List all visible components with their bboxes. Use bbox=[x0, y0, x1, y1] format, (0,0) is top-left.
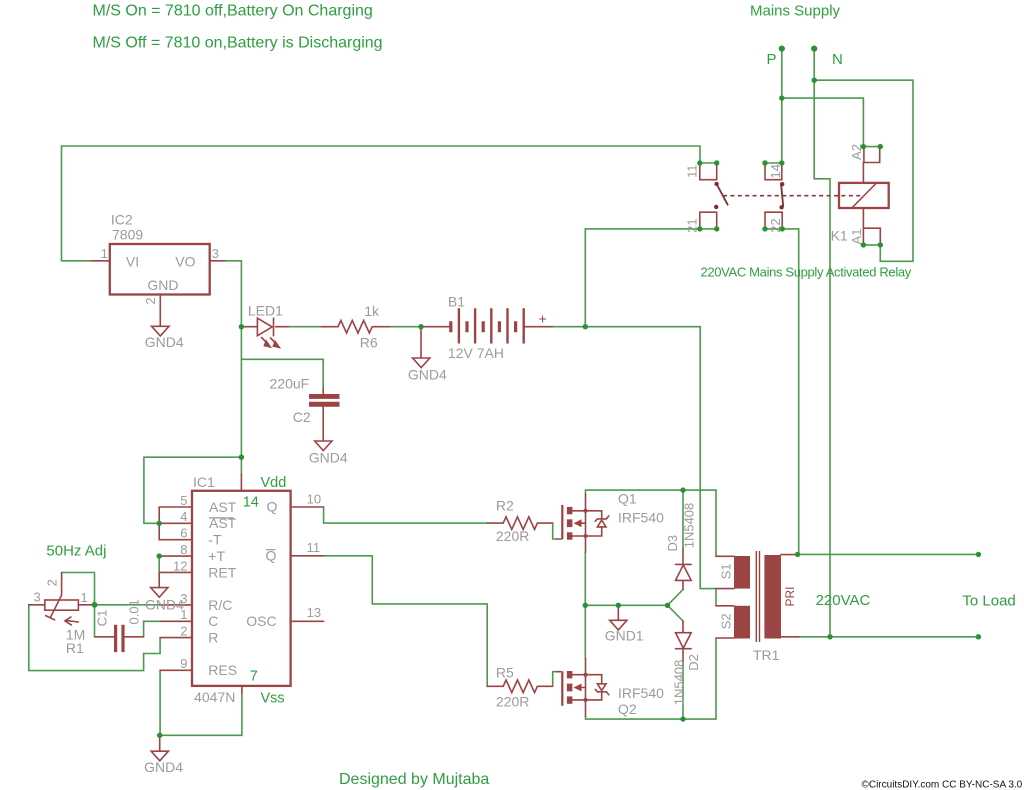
wire: 220VAC output bottom line bbox=[799, 636, 979, 638]
IC1 pin 3 R/C bbox=[160, 604, 192, 606]
svg-text:220VAC: 220VAC bbox=[816, 592, 871, 609]
svg-text:VI: VI bbox=[126, 254, 139, 270]
svg-text:B1: B1 bbox=[448, 293, 465, 309]
node contact 22 pins bbox=[762, 226, 767, 231]
node pins 4-5-6 bbox=[157, 521, 162, 526]
relay contact 11 bbox=[684, 163, 716, 180]
svg-text:-T: -T bbox=[208, 532, 222, 548]
wire: D2 anode diagonal bbox=[668, 605, 684, 621]
svg-text:R: R bbox=[208, 630, 218, 646]
wire: IC2 pin1 input bbox=[62, 260, 92, 262]
svg-text:14: 14 bbox=[243, 495, 259, 511]
svg-text:C2: C2 bbox=[293, 409, 311, 425]
node contact 11 pins bbox=[697, 160, 702, 165]
svg-text:GND4: GND4 bbox=[408, 367, 447, 383]
IC1 pin 10 Q bbox=[291, 506, 324, 508]
relay actuation dashed line bbox=[723, 195, 862, 197]
relay contact 22 bbox=[765, 212, 783, 233]
wire: Q2 drain to D2 node and S2 bottom bbox=[586, 638, 717, 719]
wire: N branch to relay coil A1 bbox=[814, 80, 913, 261]
svg-text:0.01: 0.01 bbox=[127, 599, 142, 624]
wire: R2 to Q1 gate bbox=[553, 523, 557, 539]
svg-text:4: 4 bbox=[180, 509, 187, 524]
svg-text:S1: S1 bbox=[718, 563, 733, 579]
wire: pot node to IC1 R/C bbox=[95, 604, 161, 606]
transformer TR1 bbox=[716, 551, 799, 663]
svg-text:2: 2 bbox=[180, 624, 187, 639]
diode D3 1N5408 bbox=[665, 503, 697, 590]
svg-text:R6: R6 bbox=[360, 335, 378, 351]
node battery plus bbox=[583, 324, 588, 329]
svg-text:RES: RES bbox=[208, 662, 237, 678]
node Q1 source GND1 bbox=[583, 603, 588, 608]
relay coil K1 bbox=[831, 163, 889, 244]
svg-text:GND4: GND4 bbox=[145, 597, 184, 613]
node battery minus bbox=[418, 324, 423, 329]
svg-text:LED1: LED1 bbox=[248, 303, 283, 319]
ground GND4 at IC1 pins 8-12 bbox=[145, 588, 184, 613]
svg-text:2: 2 bbox=[44, 579, 59, 586]
battery GND lead bbox=[420, 327, 422, 358]
wire: battery plus to relay contact 21 bbox=[585, 229, 700, 327]
wire: A2 pin pair bbox=[863, 146, 880, 148]
svg-text:9: 9 bbox=[180, 656, 187, 671]
wire: IC2 VO to LED node and IC1 Vdd bbox=[225, 261, 242, 475]
LED1 bbox=[243, 303, 288, 349]
svg-text:4047N: 4047N bbox=[194, 689, 235, 705]
svg-text:220R: 220R bbox=[496, 694, 529, 710]
svg-text:P: P bbox=[767, 51, 777, 68]
svg-text:Vss: Vss bbox=[261, 691, 285, 707]
svg-text:C1: C1 bbox=[94, 610, 109, 627]
node pot pin1 bbox=[92, 602, 98, 608]
IC1 pins 5-4-6 tie bbox=[158, 507, 160, 540]
IC1 pin 1 C bbox=[160, 620, 192, 622]
svg-text:IC2: IC2 bbox=[111, 212, 133, 228]
node D2 drain bbox=[680, 716, 685, 721]
diode D2 1N5408 bbox=[672, 621, 702, 705]
junction node dots bbox=[92, 46, 982, 739]
wire: 220VAC output top line bbox=[799, 553, 979, 555]
node P terminal bbox=[779, 46, 785, 52]
svg-text:AST: AST bbox=[209, 499, 237, 515]
node Vdd bbox=[239, 455, 244, 460]
ground GND4 bottom bbox=[144, 735, 183, 775]
wire: N terminal down bbox=[814, 49, 830, 637]
svg-text:Q: Q bbox=[267, 499, 278, 515]
wire: Vdd rail to pins 5 4 6 bbox=[144, 457, 242, 523]
svg-text:7: 7 bbox=[250, 668, 258, 684]
svg-text:220VAC Mains Supply Activated: 220VAC Mains Supply Activated Relay bbox=[701, 265, 912, 280]
svg-text:IRF540: IRF540 bbox=[618, 510, 664, 526]
IC1 pin 5 bbox=[159, 506, 192, 508]
IC1 4047N body bbox=[192, 491, 291, 686]
svg-text:S2: S2 bbox=[718, 613, 733, 629]
capacitor C2 bbox=[270, 375, 340, 441]
wire: P branch to relay coil A2 bbox=[782, 98, 864, 147]
ground GND4 at C2 bbox=[309, 441, 348, 466]
relay contact 14 bbox=[765, 163, 783, 180]
IC2 pin 2 GND lead bbox=[159, 295, 161, 327]
node diode common bbox=[665, 603, 670, 608]
node bottom GND4 bbox=[157, 733, 162, 738]
svg-text:OSC: OSC bbox=[246, 613, 276, 629]
wire: IC1 R pin to pot pin3 bbox=[29, 605, 160, 671]
node N terminal bbox=[811, 46, 817, 52]
node A1 pins bbox=[861, 242, 866, 247]
battery B1 bbox=[421, 293, 552, 361]
transistor Q1 IRF540 bbox=[557, 491, 665, 553]
wire: contact 11 pin pair bbox=[700, 162, 717, 164]
svg-text:K1: K1 bbox=[831, 228, 848, 244]
wire: contact 22 pin pair bbox=[765, 228, 782, 230]
svg-text:2: 2 bbox=[143, 297, 158, 304]
IC1 pins 8-12 GND lead bbox=[158, 572, 160, 587]
wire: R6 to battery B1 bbox=[389, 326, 421, 328]
svg-text:10: 10 bbox=[307, 492, 321, 507]
svg-text:Q1: Q1 bbox=[618, 491, 637, 507]
svg-text:IC1: IC1 bbox=[193, 474, 215, 490]
IC1 pin 13 OSC bbox=[291, 620, 324, 622]
svg-text:+T: +T bbox=[208, 548, 225, 564]
svg-text:14: 14 bbox=[768, 164, 783, 178]
node N branch bbox=[812, 78, 817, 83]
svg-text:TR1: TR1 bbox=[753, 647, 780, 663]
wire: pot node down to C1 bbox=[94, 605, 96, 637]
capacitor C1 bbox=[94, 599, 143, 652]
svg-text:R2: R2 bbox=[496, 498, 514, 514]
svg-text:1N5408: 1N5408 bbox=[682, 503, 697, 549]
IC2 pin 1 bbox=[92, 260, 110, 262]
resistor R2 bbox=[488, 498, 553, 545]
svg-text:©CircuitsDIY.com CC BY-NC-SA 3: ©CircuitsDIY.com CC BY-NC-SA 3.0 bbox=[862, 780, 1023, 790]
resistor R6 bbox=[322, 303, 390, 351]
IC1 pin 11 Qbar bbox=[291, 555, 324, 557]
svg-text:50Hz Adj: 50Hz Adj bbox=[46, 543, 106, 560]
IC1 pin 9 RES bbox=[160, 669, 192, 671]
wire: IC1 Qbar pin11 to R5 bbox=[324, 556, 488, 687]
relay lever 14-22 bbox=[779, 182, 784, 210]
svg-text:GND4: GND4 bbox=[309, 450, 348, 466]
IC1 pin 8 bbox=[159, 555, 192, 557]
svg-text:M/S Off = 7810 on,Battery is D: M/S Off = 7810 on,Battery is Discharging bbox=[93, 34, 383, 51]
svg-text:C: C bbox=[208, 613, 218, 629]
svg-text:Q2: Q2 bbox=[618, 701, 637, 717]
svg-text:8: 8 bbox=[180, 542, 187, 557]
wire: contact 21 pin pair bbox=[700, 228, 717, 230]
svg-text:R/C: R/C bbox=[208, 597, 232, 613]
svg-text:5: 5 bbox=[180, 493, 187, 508]
svg-text:7809: 7809 bbox=[112, 227, 143, 243]
node load top bbox=[976, 552, 981, 557]
svg-text:GND4: GND4 bbox=[145, 334, 184, 350]
IC1 pin 7 Vss bbox=[241, 686, 243, 693]
svg-text:Vdd: Vdd bbox=[261, 475, 287, 491]
wire: LED1 to R6 bbox=[288, 326, 322, 328]
svg-text:D2: D2 bbox=[686, 654, 701, 671]
wire: pin8 to GND tie bbox=[158, 556, 160, 572]
wire: P terminal down bbox=[781, 49, 783, 163]
svg-text:3: 3 bbox=[212, 246, 219, 261]
relay contact 21 bbox=[684, 212, 716, 233]
node contact 21 pins bbox=[697, 226, 702, 231]
svg-text:R5: R5 bbox=[496, 665, 514, 681]
IC2 labels bbox=[101, 212, 219, 305]
svg-text:GND4: GND4 bbox=[144, 759, 183, 775]
node LED anode bbox=[239, 324, 244, 329]
svg-text:13: 13 bbox=[307, 605, 321, 620]
svg-text:11: 11 bbox=[684, 165, 699, 179]
svg-text:GND1: GND1 bbox=[605, 628, 644, 644]
svg-text:IRF540: IRF540 bbox=[618, 685, 664, 701]
node P branch bbox=[779, 95, 784, 100]
ground GND4 at battery bbox=[408, 358, 447, 383]
resistor R5 bbox=[487, 665, 553, 710]
svg-text:A1: A1 bbox=[849, 229, 864, 245]
wire: R5 stub bbox=[486, 685, 489, 687]
svg-text:To Load: To Load bbox=[962, 593, 1015, 610]
svg-text:6: 6 bbox=[180, 526, 187, 541]
svg-text:1k: 1k bbox=[364, 303, 380, 319]
svg-text:220uF: 220uF bbox=[270, 375, 310, 391]
wire: battery plus to node bbox=[552, 326, 585, 328]
wire: R5 to Q2 gate bbox=[553, 672, 557, 687]
node primary top bbox=[795, 552, 800, 557]
wire: GND1 row bbox=[585, 552, 667, 658]
node primary bottom bbox=[827, 634, 832, 639]
wire: contact 22 to transformer primary top bbox=[782, 229, 799, 555]
svg-text:D3: D3 bbox=[665, 535, 680, 552]
IC2 pin 3 bbox=[210, 260, 225, 262]
wire: D3 anode diagonal bbox=[668, 590, 684, 606]
svg-text:12V 7AH: 12V 7AH bbox=[448, 345, 504, 361]
wire: D3 cathode up bbox=[682, 490, 684, 548]
svg-text:N: N bbox=[832, 51, 843, 68]
transistor Q2 IRF540 bbox=[557, 658, 665, 717]
node GND1 stub bbox=[616, 603, 621, 608]
IC1 pin 4 bbox=[159, 522, 192, 524]
wire: A1 pin pair bbox=[863, 244, 880, 246]
wire: RES pin to bottom GND4 bbox=[160, 670, 242, 735]
svg-text:11: 11 bbox=[307, 540, 321, 555]
node pin 8 bbox=[157, 553, 162, 558]
svg-text:1N5408: 1N5408 bbox=[672, 660, 687, 706]
node load bottom bbox=[976, 634, 981, 639]
wire: branch to C2 bbox=[241, 359, 323, 389]
wire: relay contact 11 to IC2 VI (top rail) bbox=[62, 146, 701, 261]
IC1 pin 14 Vdd bbox=[240, 474, 242, 490]
node contact 14 pins bbox=[762, 160, 767, 165]
svg-text:R1: R1 bbox=[66, 640, 84, 656]
svg-text:Designed by Mujtaba: Designed by Mujtaba bbox=[339, 771, 489, 788]
svg-text:PRI: PRI bbox=[783, 586, 797, 606]
svg-text:+: + bbox=[539, 311, 547, 327]
ground GND4 at IC2 bbox=[145, 326, 184, 350]
svg-text:220R: 220R bbox=[496, 528, 529, 544]
wire: Q1 drain node to D3 and S1 top bbox=[586, 490, 717, 556]
svg-text:Mains Supply: Mains Supply bbox=[750, 3, 841, 20]
relay coil pin A2 bbox=[849, 144, 880, 162]
ground GND1 bbox=[605, 605, 644, 643]
node A2 pins bbox=[861, 144, 866, 149]
svg-text:1: 1 bbox=[81, 590, 88, 605]
wire: battery plus to transformer center tap bbox=[585, 327, 716, 606]
svg-text:M/S On = 7810 off,Battery On C: M/S On = 7810 off,Battery On Charging bbox=[93, 2, 373, 19]
svg-text:1: 1 bbox=[101, 246, 108, 261]
wire: IC1 Q pin10 to R2 bbox=[324, 507, 488, 523]
svg-text:21: 21 bbox=[684, 218, 699, 232]
IC2 7809 body bbox=[110, 244, 210, 295]
IC1 pin 2 R bbox=[160, 637, 192, 639]
wire: pot wiper to pin1 bbox=[62, 573, 95, 605]
relay lever 11-21 bbox=[714, 182, 728, 209]
svg-text:GND: GND bbox=[147, 277, 178, 293]
wire: C1 to IC1 C pin bbox=[144, 621, 161, 637]
potentiometer R1 bbox=[29, 573, 95, 657]
svg-text:3: 3 bbox=[34, 590, 41, 605]
relay coil pin A1 bbox=[849, 228, 880, 245]
IC1 pin 6 bbox=[159, 539, 192, 541]
node D3 drain bbox=[680, 487, 685, 492]
wire: D2 cathode down bbox=[682, 665, 684, 719]
svg-text:12: 12 bbox=[173, 558, 187, 573]
svg-text:VO: VO bbox=[175, 254, 195, 270]
svg-text:RET: RET bbox=[208, 564, 236, 580]
IC1 labels bbox=[173, 474, 321, 707]
IC1 pin 12 bbox=[159, 571, 192, 573]
wire: contact 14 pin pair bbox=[765, 162, 782, 164]
